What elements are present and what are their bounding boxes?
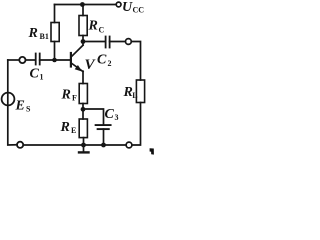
source ES (2, 93, 15, 106)
wire RC to collector node (82, 36, 84, 46)
resistor RB1 (51, 23, 59, 42)
wire RL to bottom rail (132, 103, 141, 146)
capacitor C3 (96, 125, 111, 129)
svg-text:2: 2 (108, 59, 112, 68)
label Ucc (122, 0, 144, 15)
capacitor C1 (36, 54, 40, 65)
label RL (123, 85, 138, 100)
resistor RC (79, 16, 87, 36)
svg-text:S: S (26, 105, 31, 114)
wire C3 to bottom rail (103, 129, 105, 145)
junction dot base node (52, 58, 57, 63)
svg-text:R: R (60, 120, 70, 135)
label C1 (30, 67, 44, 82)
svg-text:C: C (30, 67, 40, 82)
wire input terminal to C1 (26, 59, 36, 61)
wire C1 to base (40, 59, 70, 61)
svg-text:R: R (61, 88, 71, 103)
label RF (61, 88, 78, 103)
svg-text:E: E (71, 126, 76, 135)
label RE (60, 120, 77, 135)
svg-text:C: C (97, 53, 107, 68)
junction dot C3 bottom (101, 143, 106, 148)
svg-text:F: F (72, 94, 77, 103)
label ES (15, 99, 32, 114)
terminal output bottom (126, 142, 132, 148)
label C3 (105, 107, 119, 122)
label RB1 (28, 26, 49, 41)
junction dot RF/RE node (81, 107, 86, 112)
wire bottom rail left end (8, 60, 17, 145)
terminal output top (125, 39, 131, 45)
wire RB1 to base node (54, 42, 56, 61)
wire input top left (8, 59, 19, 61)
wire output to RL (131, 42, 140, 81)
wire collector node to C2 (83, 41, 105, 43)
svg-text:L: L (132, 91, 137, 100)
svg-text:1: 1 (40, 73, 44, 82)
junction dot top rail / RC (80, 2, 85, 7)
svg-text:B1: B1 (40, 32, 49, 41)
wire RE to bottom rail (83, 138, 85, 145)
svg-text:3: 3 (115, 113, 119, 122)
transistor V (71, 45, 83, 71)
corner mark (150, 148, 154, 154)
svg-text:CC: CC (133, 6, 145, 15)
wire top supply rail (55, 4, 117, 6)
capacitor C2 (106, 37, 110, 48)
terminal input bottom (17, 142, 23, 148)
wire C2 to output terminal (110, 41, 126, 43)
svg-text:C: C (105, 107, 115, 122)
junction dot collector node (81, 39, 86, 44)
junction dot RE bottom (81, 143, 86, 148)
label C2 (97, 53, 112, 69)
svg-text:R: R (123, 85, 133, 100)
wire RC branch top (82, 5, 84, 16)
resistor RF (79, 84, 87, 104)
svg-text:E: E (15, 99, 25, 114)
svg-text:U: U (122, 0, 133, 15)
resistor RE (79, 119, 87, 138)
terminal Ucc (116, 2, 121, 7)
resistor RL (136, 80, 144, 103)
wire bottom rail (23, 144, 126, 146)
wire emitter to RF (82, 71, 84, 83)
label RC (88, 19, 105, 35)
svg-text:R: R (88, 19, 98, 34)
svg-text:R: R (28, 26, 38, 41)
wire RB1 branch top (54, 5, 56, 23)
terminal input top (19, 57, 25, 63)
wire RF to node (82, 104, 84, 120)
wire node to C3 (83, 109, 104, 124)
ground (79, 145, 89, 152)
svg-text:C: C (99, 26, 105, 35)
